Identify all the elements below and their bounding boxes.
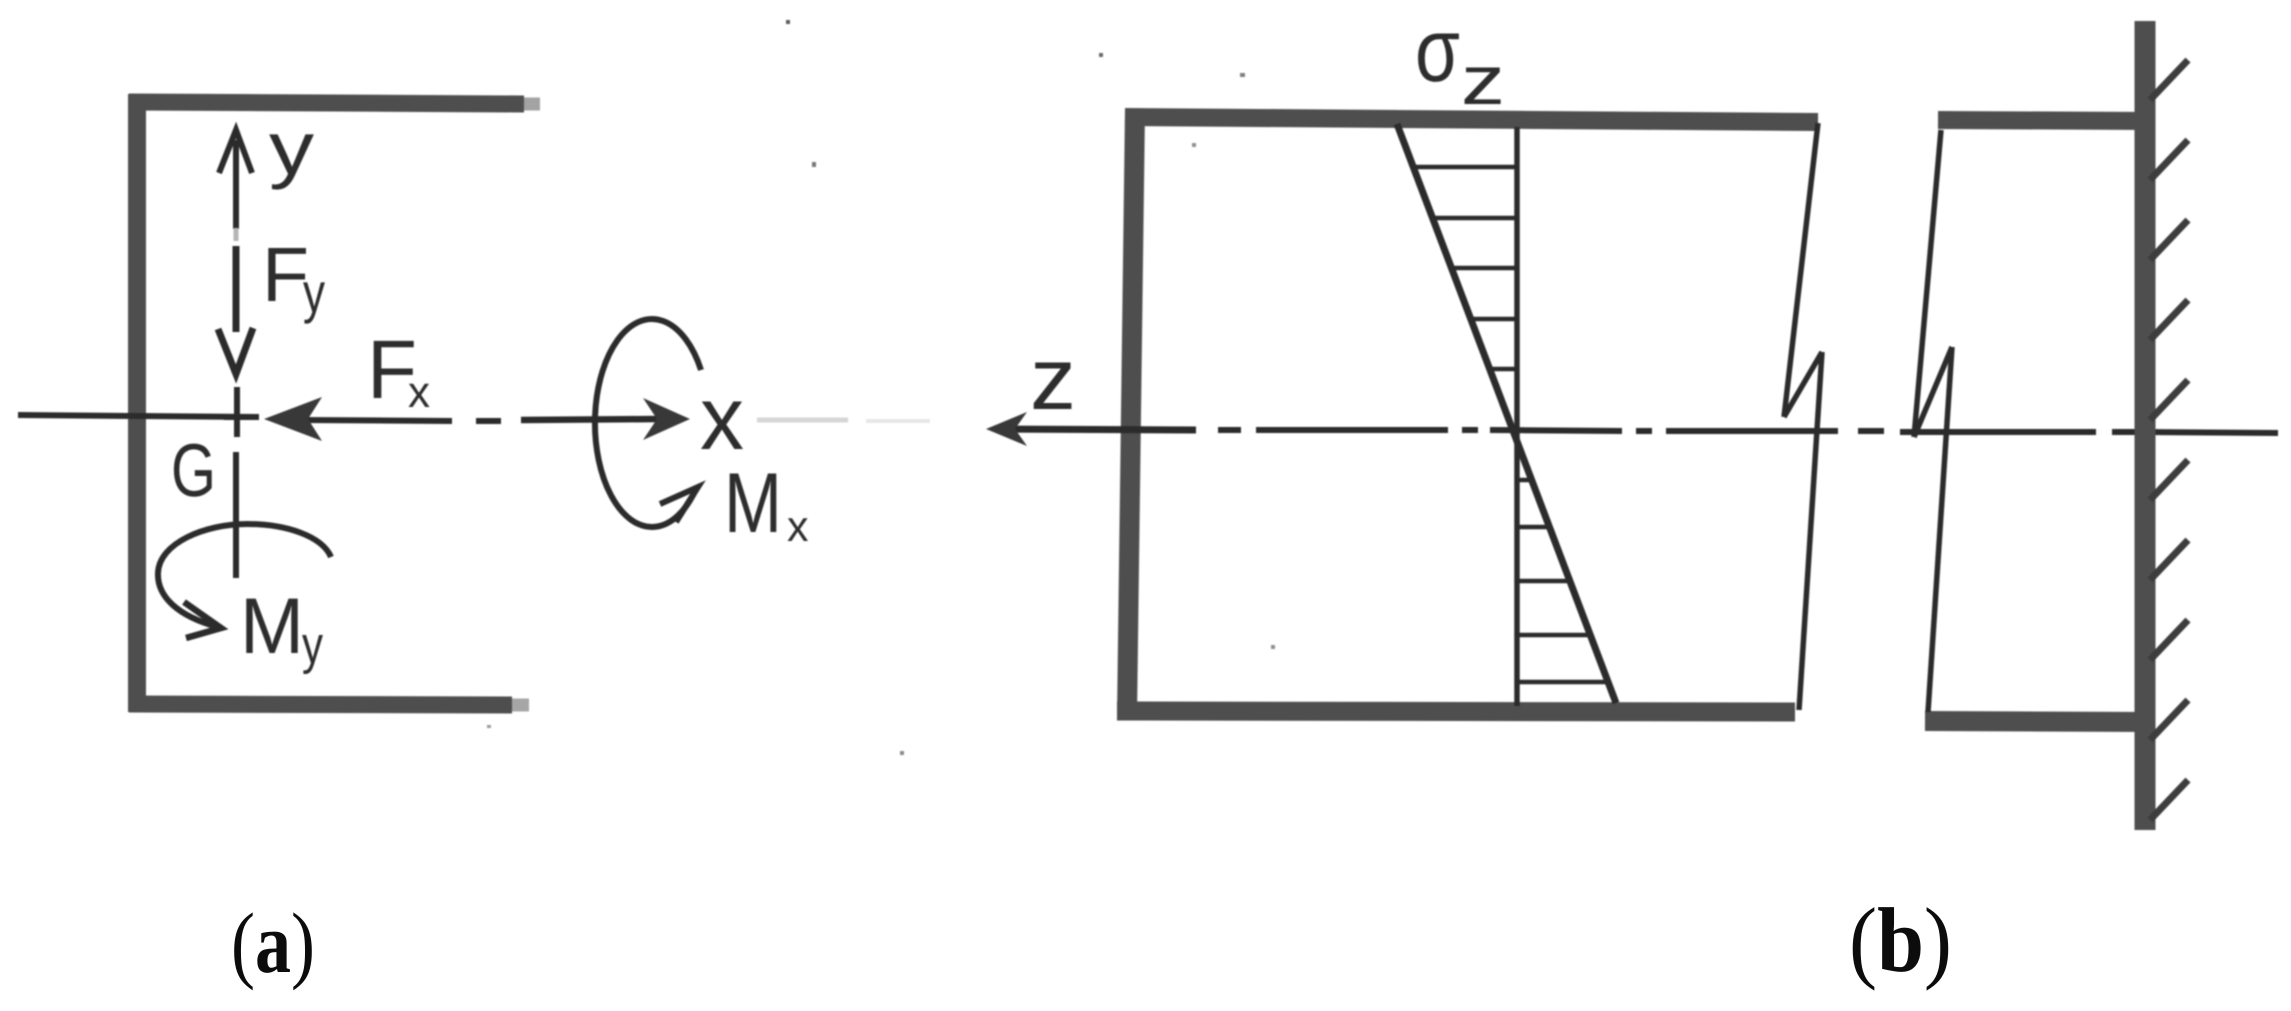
x axis thin line entering from left	[18, 415, 256, 417]
stress hatches lower	[1519, 478, 1532, 483]
moment Mx arrowhead	[660, 487, 698, 522]
svg-text:M: M	[724, 456, 782, 551]
wall (fixed support, thick vertical)	[2135, 21, 2156, 830]
z axis arrowhead	[986, 412, 1027, 446]
force Fy arrow shaft	[233, 246, 240, 332]
force Fx arrowhead	[264, 397, 322, 441]
svg-text:y: y	[303, 261, 325, 324]
stress distribution diagonal	[1397, 124, 1616, 703]
svg-text:x: x	[787, 503, 809, 551]
svg-text:F: F	[262, 232, 309, 318]
svg-text:y: y	[269, 106, 315, 190]
moment My arrowhead	[184, 602, 221, 638]
beam left edge (thick)	[1127, 109, 1135, 717]
x axis arrowhead	[643, 398, 690, 440]
stress hatches upper	[1414, 165, 1515, 170]
svg-text:z: z	[1461, 42, 1505, 119]
Fx dash of axis	[476, 418, 501, 424]
beam break zig (piece 1)	[1784, 352, 1822, 417]
stress distribution vertical reference line	[1514, 127, 1520, 706]
stub break line upper (piece 2)	[1914, 130, 1941, 437]
svg-text:σ: σ	[1415, 1, 1460, 101]
moment Mx ellipse arc	[595, 319, 701, 527]
section bottom flange (thick bar)	[129, 704, 512, 705]
beam top edge (thick)	[1125, 117, 1818, 122]
svg-text:(a): (a)	[231, 895, 315, 991]
centroid cross vertical	[234, 387, 240, 437]
moment My ellipse arc	[158, 524, 331, 627]
y axis faint dash	[234, 228, 239, 241]
stub break line lower (piece 2)	[1928, 347, 1952, 712]
centerline dash-dot across beam	[1218, 427, 1241, 433]
centroid cross horizontal	[224, 414, 259, 420]
beam break line upper (piece 1)	[1784, 123, 1818, 417]
z axis arrow shaft	[1000, 429, 1196, 430]
beam break line lower (piece 1)	[1799, 352, 1822, 710]
beam bottom edge (thick)	[1117, 711, 1795, 712]
stub top edge (thick, piece 2)	[1938, 120, 2152, 121]
scan specks	[786, 20, 790, 24]
stub bottom edge (thick, piece 2)	[1925, 721, 2152, 722]
force Fx arrow shaft	[300, 420, 452, 421]
x axis arrow shaft	[521, 419, 658, 420]
svg-text:G: G	[171, 428, 216, 512]
svg-text:M: M	[240, 581, 304, 670]
svg-text:x: x	[700, 369, 744, 469]
y axis arrow shaft	[233, 140, 239, 229]
y axis arrowhead	[219, 130, 252, 173]
section top flange (thick bar)	[129, 102, 524, 104]
svg-text:x: x	[408, 368, 430, 417]
wall hatch ticks	[2150, 60, 2188, 100]
svg-text:z: z	[1030, 329, 1076, 428]
stub break zig (piece 2)	[1914, 347, 1952, 437]
section top flange fade tip	[524, 98, 540, 111]
force Fy arrowhead	[218, 328, 253, 374]
section left flange (thick bar)	[128, 94, 146, 712]
section bottom flange fade tip	[512, 699, 529, 712]
faint inter-figure dashes	[757, 418, 848, 423]
svg-text:y: y	[302, 616, 323, 675]
centroid vertical axis below G	[233, 452, 239, 578]
svg-text:(b): (b)	[1849, 889, 1952, 991]
